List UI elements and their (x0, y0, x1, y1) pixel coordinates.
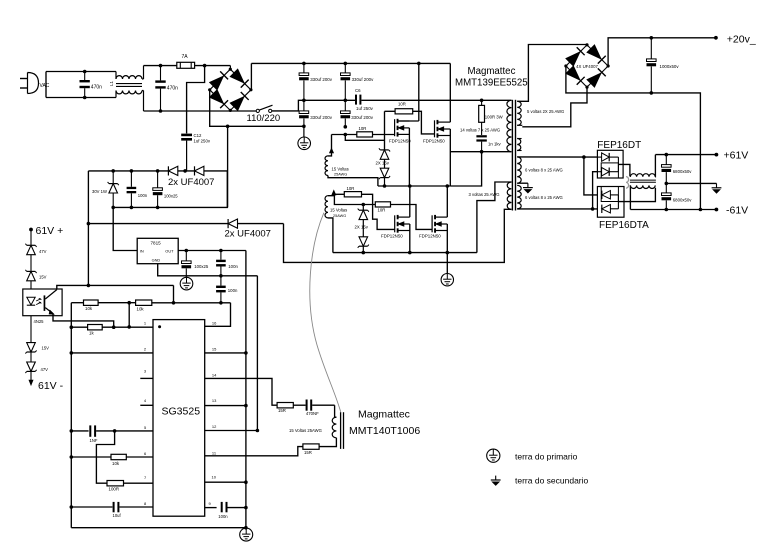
svg-text:FDP12N50: FDP12N50 (423, 139, 445, 144)
bridge rectifier B1 (210, 69, 231, 90)
wire bridge2 negative return (566, 66, 701, 210)
svg-text:4N25: 4N25 (34, 319, 45, 324)
choke left curl (626, 177, 629, 189)
wire pin4 stub (140, 404, 153, 406)
svg-text:1NF: 1NF (90, 438, 98, 443)
wire pin12 to ground rail (205, 430, 258, 432)
wire 7815 input (113, 207, 137, 250)
wire choke lower left to -61V (629, 185, 631, 209)
ground secondary output (716, 183, 718, 187)
capacitor 100n pin9 (221, 502, 223, 512)
zener 15V lower (30, 316, 32, 343)
zener pair 2X 15v lower (362, 205, 364, 211)
diode UF4007 D3 (227, 219, 229, 228)
common-mode choke L1 (116, 76, 142, 79)
resistor 15R lower drive (303, 444, 319, 449)
wire Q3 drain (409, 186, 411, 217)
svg-text:6 voltas 8 x 25 AWG: 6 voltas 8 x 25 AWG (525, 168, 563, 173)
wire 3 voltas top to source rail (477, 182, 512, 253)
svg-text:10k: 10k (85, 306, 93, 311)
svg-text:FDP12N50: FDP12N50 (419, 234, 441, 239)
svg-text:6800x50v: 6800x50v (673, 169, 692, 174)
capacitor 330uF 200v C1 (299, 73, 309, 76)
svg-text:1uf 250v: 1uf 250v (194, 138, 211, 143)
svg-text:10k: 10k (137, 306, 145, 311)
wire 61V+ chain (30, 230, 32, 246)
transformer T2 primary winding 15 Voltas 25AWG (332, 417, 336, 438)
wire upper winding top lead (328, 135, 332, 156)
wire center tap to ground (517, 182, 528, 184)
capacitor 1n 1kv snubber (481, 122, 483, 135)
capacitor 10uf soft start (113, 502, 115, 512)
wire flux link curve (310, 213, 341, 412)
resistor 10k feedback upper (71, 302, 83, 304)
wire Q2 drain (449, 63, 451, 122)
wire Q4 gate jog (391, 205, 433, 230)
wire Q1 drain (418, 63, 420, 121)
svg-text:47V: 47V (39, 249, 47, 254)
transistor Q1 FDP12N50 (394, 119, 396, 136)
wire aux right side (113, 171, 228, 208)
svg-text:terra do secundario: terra do secundario (515, 476, 589, 486)
svg-text:MMT140T1006: MMT140T1006 (349, 425, 420, 437)
resistor 10R gate Q2 (384, 111, 386, 150)
svg-text:15: 15 (212, 347, 217, 352)
svg-text:FEP16DT: FEP16DT (597, 140, 641, 151)
ground primary at SG3525 (240, 528, 253, 541)
svg-text:L1: L1 (109, 80, 114, 86)
wire pin8 (71, 506, 112, 508)
svg-text:100n: 100n (138, 193, 148, 198)
wire pin1 input (102, 326, 153, 328)
svg-text:2x UF4007: 2x UF4007 (168, 177, 214, 188)
svg-text:100n: 100n (218, 514, 228, 519)
wire output mid rail (666, 182, 716, 184)
wire 5 voltas top lead (517, 45, 587, 102)
svg-text:C6: C6 (355, 88, 361, 93)
transformer T1 core (511, 100, 513, 211)
regulator U2 7815 (137, 238, 178, 263)
svg-text:25AWG: 25AWG (333, 214, 346, 218)
svg-text:470NF: 470NF (306, 411, 319, 416)
resistor 1k (71, 326, 87, 328)
wire bridge2 positive to +20v (608, 38, 716, 66)
output choke winding upper (630, 174, 655, 177)
wire divider tap to pin1 (128, 303, 130, 327)
svg-text:100n: 100n (228, 288, 238, 293)
transistor Q4 FDP12N50 (431, 215, 433, 232)
lower drive winding 15 Voltas 25AWG (325, 196, 328, 218)
svg-text:100x25: 100x25 (194, 264, 209, 269)
wire pin9 (205, 507, 217, 509)
wire choke to bottom rail (142, 90, 144, 92)
svg-text:1000x50v: 1000x50v (660, 64, 680, 69)
wire 6v upper lead to FEP16DT (517, 156, 597, 158)
zener 47V upper (27, 244, 36, 246)
output choke winding lower (630, 185, 655, 188)
svg-text:4X UF4007: 4X UF4007 (576, 64, 598, 69)
svg-text:15 Voltas 25AWG: 15 Voltas 25AWG (289, 428, 322, 433)
svg-text:15R: 15R (278, 408, 286, 413)
capacitor C12 1uF 250v (181, 134, 192, 137)
zener 15V upper (27, 270, 36, 272)
zener 30V 1W (109, 183, 118, 185)
wire fused line to C12 (187, 66, 205, 134)
svg-text:FEP16DTA: FEP16DTA (599, 220, 649, 231)
svg-text:+61V: +61V (724, 150, 749, 162)
wire pin3 stub (140, 377, 153, 379)
wire winding end A to FEP16DTA (584, 157, 598, 195)
wire Q4 drain (446, 186, 448, 217)
wire opto emitter (53, 314, 114, 327)
wire pin10 (205, 481, 246, 483)
wire to MMT140T1006 primary top (335, 405, 337, 417)
ground primary at bulk capacitors (303, 126, 305, 137)
svg-text:Magmattec: Magmattec (358, 408, 410, 420)
wire 5 voltas bottom lead (517, 124, 522, 126)
wire +61V rail (655, 154, 716, 156)
capacitor 330uF 200v C4 (341, 111, 351, 114)
ground primary at 7815 (180, 277, 193, 290)
svg-text:GND: GND (152, 258, 161, 263)
capacitor 330uF 200v C3 (299, 111, 309, 114)
wire -61V rail (630, 209, 716, 211)
T1 secondary 6 voltas lower (517, 185, 521, 209)
svg-text:15 Voltas: 15 Voltas (330, 208, 347, 213)
legend ground secondary symbol (495, 476, 497, 480)
svg-text:110/220: 110/220 (247, 113, 281, 124)
wire bottom ground run (71, 527, 246, 529)
wire to pin16 loop (152, 302, 231, 304)
svg-text:16: 16 (212, 321, 217, 326)
legend ground primary symbol (487, 449, 500, 462)
svg-text:+20v_: +20v_ (727, 33, 756, 45)
svg-text:100R: 100R (109, 486, 120, 491)
svg-text:61V -: 61V - (38, 380, 64, 392)
ground primary at power stage (441, 274, 453, 286)
wire aux feed vertical (87, 171, 89, 286)
wire choke upper left (629, 175, 631, 178)
wire Q2 source (449, 129, 451, 186)
wire left bias rail (70, 303, 72, 528)
svg-text:15R: 15R (304, 450, 312, 455)
svg-text:FDP12N50: FDP12N50 (381, 234, 403, 239)
svg-text:5 voltas 2X 25 AWG: 5 voltas 2X 25 AWG (527, 109, 564, 114)
wire gate node W2 (345, 135, 384, 141)
wire to 3 voltas winding (284, 209, 512, 262)
switch 110/220 (256, 109, 259, 112)
wire 6v lower lead to FEP16DTA (517, 208, 597, 210)
svg-text:10R: 10R (359, 126, 367, 131)
svg-text:OUT: OUT (165, 248, 174, 253)
wire lower winding top lead (328, 194, 334, 195)
wire pin2 (71, 352, 153, 354)
svg-text:14: 14 (212, 372, 217, 377)
svg-text:7815: 7815 (151, 241, 162, 246)
resistor 10k feedback lower (136, 300, 152, 305)
fuse F1 7A (177, 62, 195, 68)
svg-text:7A: 7A (182, 54, 189, 60)
svg-text:15 Voltas: 15 Voltas (332, 166, 349, 171)
terminal 61V plus (29, 228, 33, 232)
wire FEP16DT output to choke (618, 164, 630, 176)
wire 7815 gnd vertical (256, 276, 258, 431)
wire VCC vertical rail (245, 251, 247, 528)
svg-text:47V: 47V (41, 367, 49, 372)
wire collector junction riser (173, 285, 175, 302)
wire fuse to bridge (195, 65, 231, 67)
svg-text:2x UF4007: 2x UF4007 (225, 229, 271, 240)
wire switch to capacitor midpoint (272, 100, 304, 111)
T1 secondary 6 voltas upper (517, 157, 521, 183)
wire aux negative drop (227, 126, 229, 207)
svg-text:13: 13 (212, 398, 217, 403)
wire bridge2 bottom to winding (522, 87, 587, 127)
ground secondary center tap (527, 183, 529, 187)
wire aux top (88, 170, 168, 172)
capacitor 6800x50v lower (662, 193, 672, 196)
wire divider mid (98, 302, 136, 304)
svg-text:IN: IN (140, 248, 144, 253)
svg-text:2X 15v: 2X 15v (376, 161, 390, 166)
wire gate node W2 lower (334, 194, 376, 204)
T1 middle stub winding (517, 139, 521, 151)
capacitor 100n at 7815 out (216, 260, 226, 262)
capacitor 470NF (306, 400, 308, 411)
resistor 100R 3W snubber (480, 99, 484, 103)
transformer T2 core (340, 412, 342, 449)
transistor Q2 FDP12N50 (434, 120, 436, 137)
wire input box left (45, 72, 47, 98)
svg-text:MMT139EE5525: MMT139EE5525 (455, 78, 528, 89)
wire 7815 output rail (178, 250, 246, 252)
svg-text:10R: 10R (347, 186, 355, 191)
wire source rail lower FETs (333, 252, 477, 254)
wire pin13 (205, 405, 246, 407)
zener 47V lower (30, 352, 32, 362)
svg-text:1uf 250v: 1uf 250v (356, 106, 374, 111)
wire pin7 (124, 482, 154, 484)
resistor 10k timing (111, 454, 126, 459)
wire midpoint drop to rail (450, 152, 481, 186)
wire Q2 gate jog (413, 111, 435, 134)
zener pair 2X 15v upper (380, 149, 389, 151)
wire Q3 gate jog (362, 194, 395, 229)
T1 winding 3 voltas (507, 182, 511, 209)
svg-text:2X 15v: 2X 15v (355, 224, 369, 229)
svg-text:12: 12 (212, 424, 217, 429)
wire input box bottom (46, 97, 116, 99)
wire gate line W1 lower (334, 193, 345, 195)
svg-text:10uf: 10uf (113, 513, 122, 518)
wire pin6 (71, 456, 111, 458)
capacitor 1000x50v (647, 59, 657, 62)
svg-text:470n: 470n (91, 85, 102, 91)
wire mid rail left (304, 99, 355, 101)
svg-text:30V 1W: 30V 1W (92, 189, 107, 194)
capacitor 100n aux (127, 187, 137, 189)
wire half-bridge midpoint rail (378, 185, 450, 187)
wire bridge negative output (210, 90, 304, 127)
svg-text:61V +: 61V + (36, 225, 64, 237)
capacitor 6800x50v upper (662, 165, 672, 168)
svg-text:10R: 10R (398, 101, 406, 106)
wire choke to top rail (142, 78, 144, 80)
transistor Q3 FDP12N50 (394, 215, 396, 232)
svg-text:VAC: VAC (40, 83, 50, 89)
wire timing network (96, 431, 114, 483)
wire upper winding bottom lead (328, 176, 378, 187)
svg-text:10k: 10k (112, 461, 120, 466)
resistor 10R gate Q1 (357, 132, 373, 137)
capacitor 100x25 at 7815 out (182, 261, 192, 264)
wire FEP16DTA output (618, 188, 655, 202)
capacitor 100x25 aux (153, 188, 163, 191)
svg-text:330uf 200v: 330uf 200v (352, 77, 375, 82)
capacitor C6 1uF 250v (355, 95, 357, 105)
svg-text:10: 10 (212, 475, 217, 480)
wire Q4 source to ground (446, 224, 448, 273)
wire pin5 (71, 430, 88, 432)
svg-text:terra do primario: terra do primario (515, 452, 578, 462)
svg-text:1k: 1k (89, 330, 94, 335)
svg-text:SG3525: SG3525 (162, 406, 201, 418)
capacitor 470n after filter (155, 80, 165, 82)
rectifier FEP16DTA (597, 187, 624, 218)
svg-text:100x25: 100x25 (164, 194, 178, 199)
svg-text:15V: 15V (39, 275, 47, 280)
resistor 10R gate Q4 (375, 202, 390, 207)
resistor 15R upper drive (277, 403, 293, 408)
wire input box top (46, 71, 116, 73)
output choke core (630, 179, 656, 181)
terminal 61V minus (30, 371, 32, 380)
T1 secondary 5 voltas winding (517, 101, 521, 125)
wire winding end B to FEP16DT (593, 172, 598, 209)
svg-text:10R: 10R (378, 208, 386, 213)
wire Q3 source (409, 224, 411, 253)
capacitor 330uF 200v C2 (341, 73, 351, 76)
wire T2 primary bottom (319, 438, 336, 447)
optocoupler U3 4N25 (23, 289, 62, 316)
wire pin15 (205, 352, 246, 354)
resistor 10R gate Q3 (344, 192, 361, 197)
wire Q1 source (408, 128, 410, 186)
svg-text:FDP12N50: FDP12N50 (389, 139, 411, 144)
svg-text:-61V: -61V (726, 204, 748, 216)
wire AC bottom bus (144, 110, 257, 112)
svg-text:C12: C12 (194, 133, 202, 138)
IC U1 SG3525 (153, 320, 205, 517)
upper drive winding 15 Voltas 25AWG (325, 156, 328, 176)
wire 7815 ground rail (158, 264, 258, 276)
wire aux winding line (88, 223, 228, 225)
svg-text:6 voltas 8 x 25 AWG: 6 voltas 8 x 25 AWG (525, 195, 563, 200)
svg-text:6800x50v: 6800x50v (673, 197, 692, 202)
capacitor 100n decoupling pin16 line (216, 286, 226, 288)
svg-text:100n: 100n (228, 264, 238, 269)
svg-text:25AWG: 25AWG (334, 173, 347, 177)
svg-text:330uf 200v: 330uf 200v (351, 115, 374, 120)
svg-text:14 voltas 7 x 25 AWG: 14 voltas 7 x 25 AWG (460, 128, 500, 133)
svg-text:15V: 15V (42, 346, 50, 351)
wire mid rail right to transformer primary (361, 99, 511, 101)
capacitor 1NF (89, 425, 91, 436)
svg-text:330uf 200v: 330uf 200v (310, 115, 333, 120)
wire choke upper right to +61V (654, 155, 656, 177)
svg-text:470n: 470n (167, 86, 178, 92)
wire top DC rail (251, 62, 450, 64)
wire bridge positive to top rail (250, 63, 252, 89)
rectifier FEP16DT (597, 150, 623, 178)
resistor 100R (107, 481, 124, 486)
wire opto collector (57, 285, 174, 289)
wire pin14 to drive (205, 378, 277, 405)
wire primary bottom lead (450, 151, 511, 153)
diode UF4007 D1 (167, 166, 169, 175)
bridge rectifier 4X UF4007 (566, 45, 587, 66)
AC plug P1 (20, 78, 28, 80)
svg-text:330uf 200v: 330uf 200v (310, 77, 333, 82)
svg-text:1n 1kv: 1n 1kv (488, 141, 502, 146)
wire pin11 to drive (205, 447, 303, 456)
wire gate line W1 (332, 134, 395, 136)
diode UF4007 D2 (194, 166, 196, 175)
capacitor 470n line filter (80, 80, 90, 82)
wire lower winding bottom lead (328, 218, 333, 253)
svg-text:Magmattec: Magmattec (468, 66, 516, 77)
svg-text:100R 3W: 100R 3W (485, 115, 504, 120)
T1 primary winding 14 voltas (507, 100, 512, 151)
